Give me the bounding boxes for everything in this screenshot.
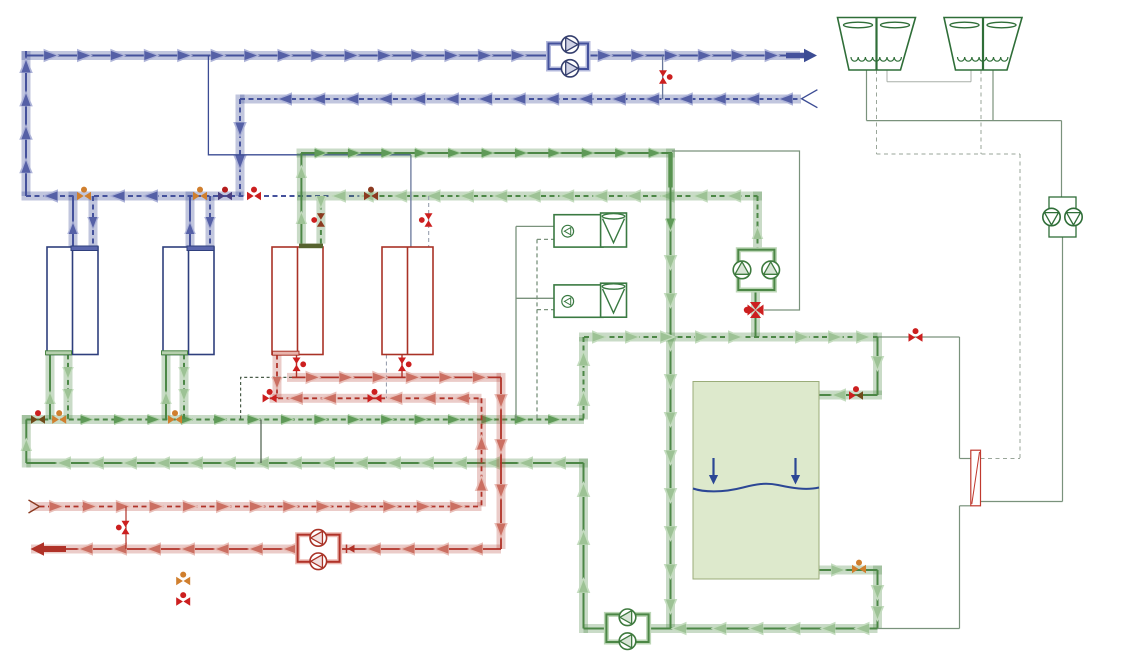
node: chiller CH2 bottom connector — [162, 351, 188, 355]
valve V6: bypass valve blue circuit (red) — [659, 70, 673, 84]
valve V2: 3-way motor valve chiller CH2 return (orange) — [193, 187, 207, 201]
wire: tower supply line to pumps (thin green) — [867, 70, 1062, 197]
wire: thin red branch x=126 — [125, 507, 127, 550]
wire: tank inlet drop x=877 and top port — [819, 333, 884, 402]
valve V17: 4-way mixing valve at changeover pumps (red) — [744, 302, 764, 318]
wire: green pump connection to tank header — [751, 290, 760, 337]
valve V9: supply stub valve CH3 (red) — [293, 358, 307, 372]
tank: thermal storage tank TK1 — [693, 382, 819, 580]
cooling tower CT2 — [944, 18, 1022, 71]
wire: heating return inlet (red dashed, y=506) — [29, 500, 482, 514]
valve V3: isolation valve blue header (purple) — [218, 187, 232, 201]
pump group P3/P4: changeover pumps (green) — [733, 250, 779, 290]
wire: heat exchanger primary links (thin green) — [878, 337, 971, 629]
wire: heat-recovery supply line (red, y=377) — [287, 371, 501, 385]
wire: AHU 2 supply link (thin green) — [516, 297, 554, 299]
check valve CV1 (red line) — [347, 545, 355, 554]
heat-recovery chiller CH4 (red) — [382, 247, 433, 355]
node: chiller CH2 top connector — [187, 246, 214, 251]
node: chiller CH1 top connector — [71, 246, 98, 251]
wire: AHU 1 return link (dashed green) — [537, 238, 554, 240]
wire: thin bypass between blue supply and return (x=663) — [662, 56, 664, 100]
node: chiller CH3 bottom connector — [273, 351, 300, 355]
wire: thin balance connector x=261 — [260, 420, 262, 464]
chiller CH1 (blue) — [47, 247, 98, 355]
wire: heat-recovery chiller 1 green riser pair — [296, 153, 327, 244]
valve V14: 3-way motor valve CH1 condenser (orange) — [52, 410, 66, 424]
wire: bottom condenser-water pipe (y=628) — [584, 622, 878, 636]
wire: tower pump discharge to heat exchanger — [981, 237, 1063, 502]
wire: riser x=583 (y337-y419) — [577, 337, 591, 420]
wire: AHU supply riser x=516 — [515, 226, 517, 419]
pump group P5/P6: condenser-water pumps (green) — [606, 609, 648, 650]
heat-recovery chiller CH3 (red) — [272, 247, 323, 355]
wire: heat-recovery chiller 1 supply stub x=296 — [296, 355, 298, 378]
cooling tower CT1 — [838, 18, 916, 71]
valve V11: 3-way valve heat-recovery return CH3 (red) — [263, 389, 277, 403]
wire: chiller 1 blue riser pair — [67, 192, 99, 248]
node: chiller CH3 top connector — [299, 244, 323, 249]
wire: tank supply header (green dashed, y=337) — [579, 330, 960, 344]
wire: gray dashed riser from heat-recovery chiller 2 bottom — [385, 355, 387, 399]
valve V16: branch valve red circuit (red) — [116, 521, 130, 535]
wire: chiller 2 condenser riser pair (green) — [160, 354, 190, 419]
wire: AHU 1 supply link (thin green) — [516, 225, 554, 227]
air-handling unit AHU1 — [554, 213, 627, 247]
valve V10: supply stub valve CH4 (red) — [398, 358, 412, 372]
wire: changeover header green section (dashed, y=196) with drop to pumps at x=757 — [297, 189, 763, 250]
wire: left riser x=26 between headers — [21, 415, 33, 468]
valve V15: 3-way motor valve CH2 condenser (orange) — [168, 410, 182, 424]
valve V19: tank inlet valve (red/brown) — [849, 386, 863, 400]
wire: chilled-water return header (blue dashed, y=99) with drop at x=240 — [233, 90, 817, 196]
wire: chiller return header blue section (dashed, y=196) — [22, 189, 372, 203]
wire: thin blue tap from supply header to heat-recovery chiller 2 — [208, 56, 411, 248]
wire: chiller 2 blue riser pair — [184, 192, 216, 248]
wire: condenser-water return line (green, y=463) — [26, 456, 588, 470]
valve V18: valve on heat-exchanger feed (red) — [909, 328, 923, 342]
valve V5: isolation valve green header (maroon) — [364, 187, 378, 201]
wire: red return riser x=481 (dashed) — [475, 398, 489, 506]
wire: tower return line (gray dashed) — [877, 70, 1021, 459]
wire: tank bottom port and drop x=877 — [819, 563, 884, 628]
pump group P1/P2: chilled-water pumps (blue) — [549, 36, 589, 77]
wire: tower basin equalizer line — [887, 70, 971, 82]
wire: heat-recovery chiller 2 supply stub x=402 — [401, 355, 403, 378]
valve V21: spare 3-way motor valve (orange) — [176, 572, 190, 586]
wire: heat-recovery chiller 1 red riser — [271, 355, 283, 399]
valve V4: isolation valve changeover header (red) — [247, 187, 261, 201]
chiller CH2 (blue) — [163, 247, 214, 355]
wire: chilled-water supply header (blue, y=55) — [22, 49, 818, 63]
wire: riser x=583 (y463-y628) — [577, 459, 591, 634]
wire: thin pump bypass line (x=799) — [672, 151, 800, 310]
heat exchanger HX1 — [971, 450, 981, 506]
wire: condenser-water collection header (green dashed, y=419) — [22, 414, 584, 425]
valve V13: isolation valve collection header left (brown/red) — [31, 410, 45, 424]
valve V8: riser valve chiller CH4 top (red) — [419, 213, 433, 227]
valve V12: 3-way valve heat-recovery return CH4 (red) — [368, 389, 382, 403]
wire: chiller 1 condenser riser pair (green) — [44, 354, 74, 419]
valve V1: 3-way motor valve chiller CH1 return (orange) — [77, 187, 91, 201]
valve V20: tank outlet valve (orange) — [852, 560, 866, 574]
wire: gray dashed riser to heat-recovery chiller 2 top — [428, 196, 430, 247]
pump group P9/P10: cooling-tower pumps — [1043, 197, 1082, 237]
valve V7: riser valve chiller CH3 top (maroon/red) — [311, 213, 325, 227]
wire: heat-recovery return line (red dashed, y=398) — [270, 392, 482, 406]
pump group P7/P8: heat-recovery pumps (red) — [298, 530, 340, 570]
wire: AHU 2 return link (dashed green) — [537, 309, 554, 311]
air-handling unit AHU2 — [554, 283, 627, 317]
wire: AHU return riser x=537 (dashed) — [536, 239, 538, 419]
wire: chilled-water supply riser (blue, x=26) — [19, 51, 33, 196]
node: chiller CH1 bottom connector — [46, 351, 72, 355]
valve V22: spare 3-way valve (red) — [176, 592, 190, 606]
wire: thin dashed control line to header — [241, 377, 292, 419]
wire: red supply drop x=501 — [494, 373, 508, 549]
wire: heating supply outlet (red, y=549) — [31, 542, 502, 556]
wire: condenser-water supply (green, y=153) and main drop x=670 — [297, 147, 678, 628]
